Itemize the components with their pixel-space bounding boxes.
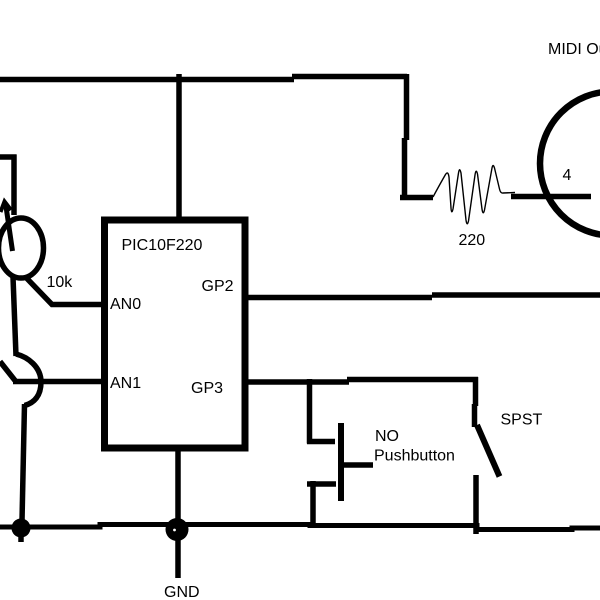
svg-text:Pushbutton: Pushbutton — [374, 448, 455, 465]
svg-text:MIDI Out: MIDI Out — [548, 41, 600, 58]
svg-text:SPST: SPST — [501, 412, 543, 429]
svg-text:GP3: GP3 — [191, 380, 223, 397]
svg-text:PIC10F220: PIC10F220 — [122, 237, 203, 254]
svg-text:4: 4 — [563, 167, 572, 184]
svg-text:GP2: GP2 — [202, 278, 234, 295]
svg-text:10k: 10k — [47, 274, 74, 291]
svg-text:220: 220 — [459, 232, 486, 249]
svg-text:AN0: AN0 — [110, 296, 141, 313]
svg-text:GND: GND — [164, 584, 200, 600]
svg-text:NO: NO — [375, 428, 399, 445]
svg-text:AN1: AN1 — [110, 375, 141, 392]
